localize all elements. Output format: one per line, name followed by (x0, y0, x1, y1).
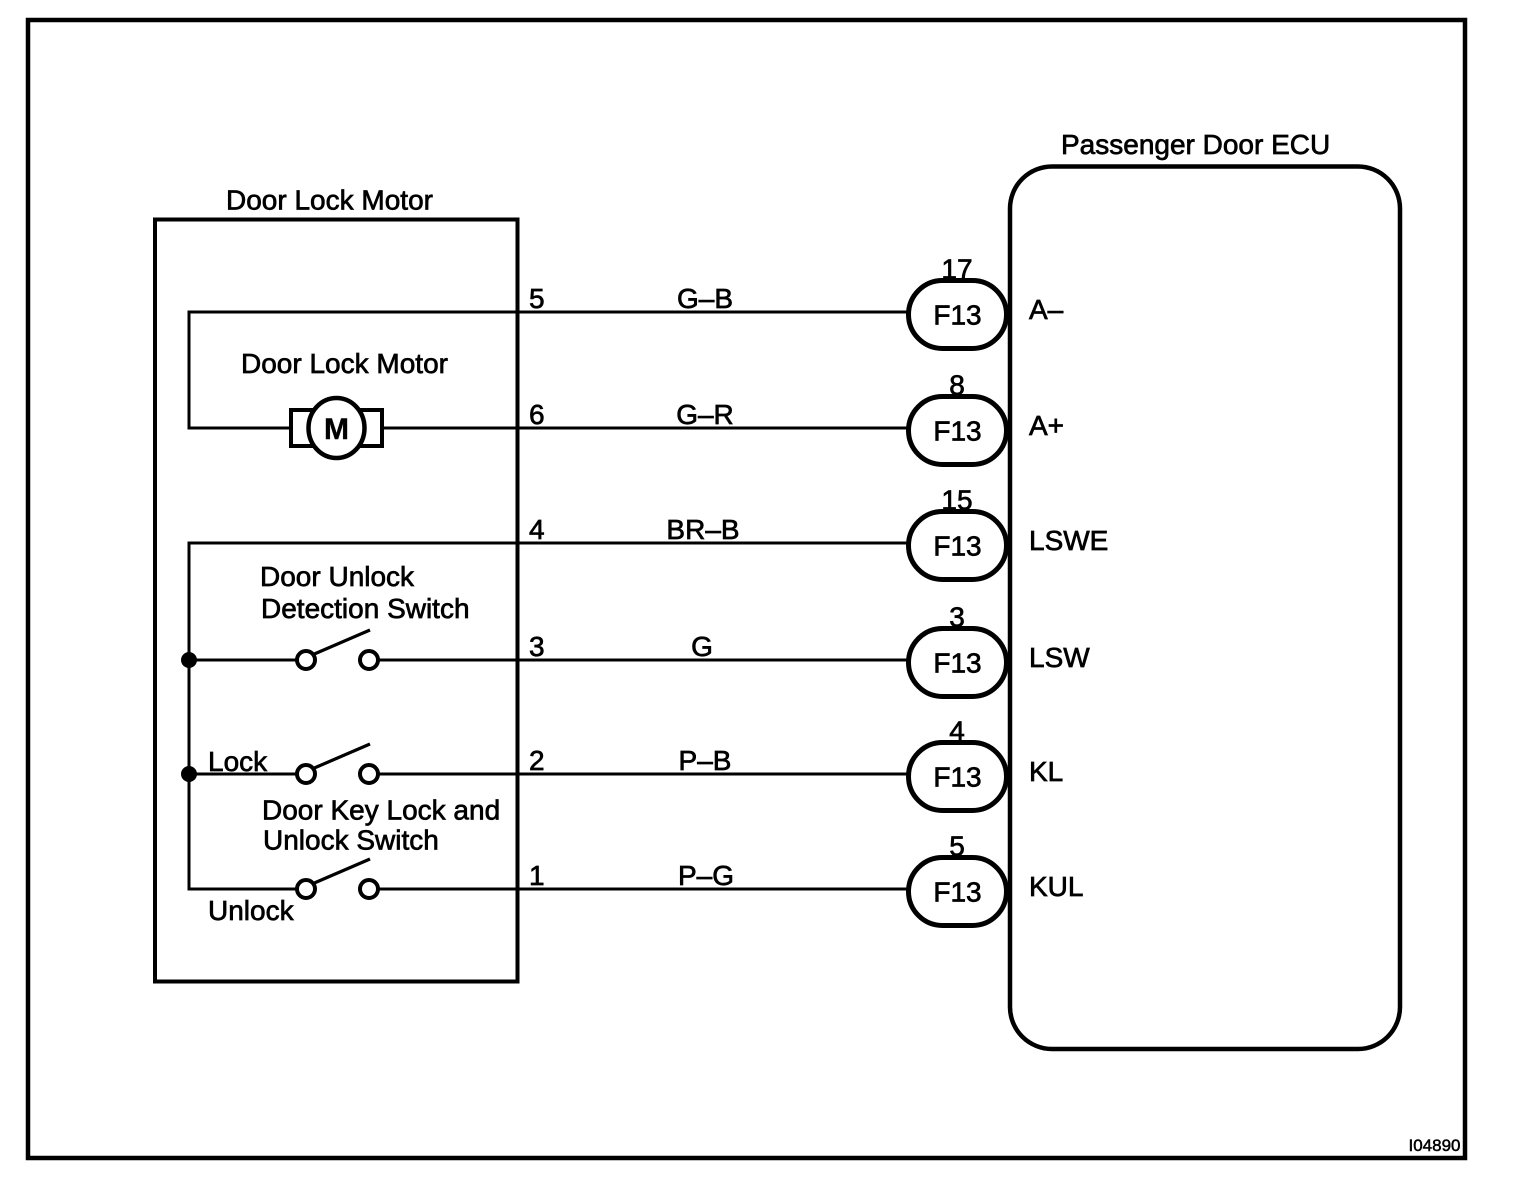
wire row 2 (pin 6 to F13-8, G-R) (189, 427, 908, 430)
svg-text:6: 6 (529, 399, 545, 430)
svg-text:BR–B: BR–B (666, 514, 739, 545)
svg-text:15: 15 (941, 485, 972, 516)
svg-text:P–G: P–G (678, 860, 734, 891)
svg-text:5: 5 (949, 831, 965, 862)
svg-text:F13: F13 (933, 877, 981, 908)
svg-text:F13: F13 (933, 531, 981, 562)
svg-text:Unlock Switch: Unlock Switch (263, 825, 439, 856)
wire row 3 (pin 4 to F13-15, BR-B) (189, 542, 908, 545)
svg-text:1: 1 (529, 860, 545, 891)
svg-text:Unlock: Unlock (208, 895, 295, 926)
svg-text:M: M (324, 413, 349, 446)
wire row 4 right (switch to F13-3, G) (369, 659, 908, 662)
svg-text:G–R: G–R (676, 399, 734, 430)
connector F13 pin 15 (909, 512, 1007, 580)
svg-text:5: 5 (529, 283, 545, 314)
connector F13 pin 4 (909, 743, 1007, 811)
junction node (bus / lock switch) (181, 766, 197, 782)
svg-text:Door Key Lock and: Door Key Lock and (262, 795, 500, 826)
svg-text:F13: F13 (933, 648, 981, 679)
wire motor loop vertical segment (188, 311, 191, 430)
svg-text:LSWE: LSWE (1029, 525, 1108, 556)
junction node (bus / detection switch) (181, 652, 197, 668)
connector F13 pin 3 (909, 629, 1007, 697)
Door Lock Motor component box (155, 220, 518, 982)
svg-text:2: 2 (529, 745, 545, 776)
wire row 6 right (switch to F13-5, P-G) (369, 888, 908, 891)
svg-text:LSW: LSW (1029, 642, 1090, 673)
svg-text:F13: F13 (933, 300, 981, 331)
wire switch bus vertical segment (188, 542, 191, 891)
svg-text:Passenger Door ECU: Passenger Door ECU (1061, 129, 1330, 160)
svg-text:4: 4 (949, 716, 965, 747)
switch S1: Door Unlock Detection Switch (297, 630, 378, 669)
svg-text:4: 4 (529, 514, 545, 545)
wire row 6 left (bus to unlock switch) (189, 888, 306, 891)
svg-text:Door Lock Motor: Door Lock Motor (241, 348, 448, 379)
connector F13 pin 17 (909, 281, 1007, 349)
svg-text:KL: KL (1029, 756, 1063, 787)
svg-text:A+: A+ (1029, 410, 1064, 441)
switch S2: Door Key Lock switch (Lock) (297, 744, 378, 783)
svg-text:Door Lock Motor: Door Lock Motor (226, 185, 433, 216)
svg-text:I04890: I04890 (1409, 1136, 1461, 1155)
motor M1 (Door Lock Motor) (291, 398, 382, 458)
svg-text:KUL: KUL (1029, 871, 1083, 902)
connector F13 pin 8 (909, 397, 1007, 465)
svg-text:17: 17 (941, 254, 972, 285)
svg-text:P–B: P–B (679, 745, 732, 776)
svg-text:G–B: G–B (677, 283, 733, 314)
svg-text:Lock: Lock (208, 746, 268, 777)
svg-text:Door Unlock: Door Unlock (260, 561, 415, 592)
Passenger Door ECU box U1 (1010, 167, 1400, 1050)
svg-text:3: 3 (949, 602, 965, 633)
svg-text:F13: F13 (933, 762, 981, 793)
wire row 4 left (bus to detection switch) (189, 659, 306, 662)
svg-text:A–: A– (1029, 294, 1064, 325)
wire row 5 right (switch to F13-4, P-B) (369, 773, 908, 776)
svg-text:3: 3 (529, 631, 545, 662)
wire row 1 (pin 5 to F13-17, G-B) (189, 311, 908, 314)
svg-text:F13: F13 (933, 416, 981, 447)
svg-text:Detection Switch: Detection Switch (261, 593, 470, 624)
switch S3: Door Key Unlock switch (Unlock) (297, 859, 378, 898)
wire row 5 left (bus to lock switch) (189, 773, 306, 776)
svg-text:8: 8 (949, 370, 965, 401)
connector F13 pin 5 (909, 858, 1007, 926)
svg-text:G: G (691, 631, 713, 662)
